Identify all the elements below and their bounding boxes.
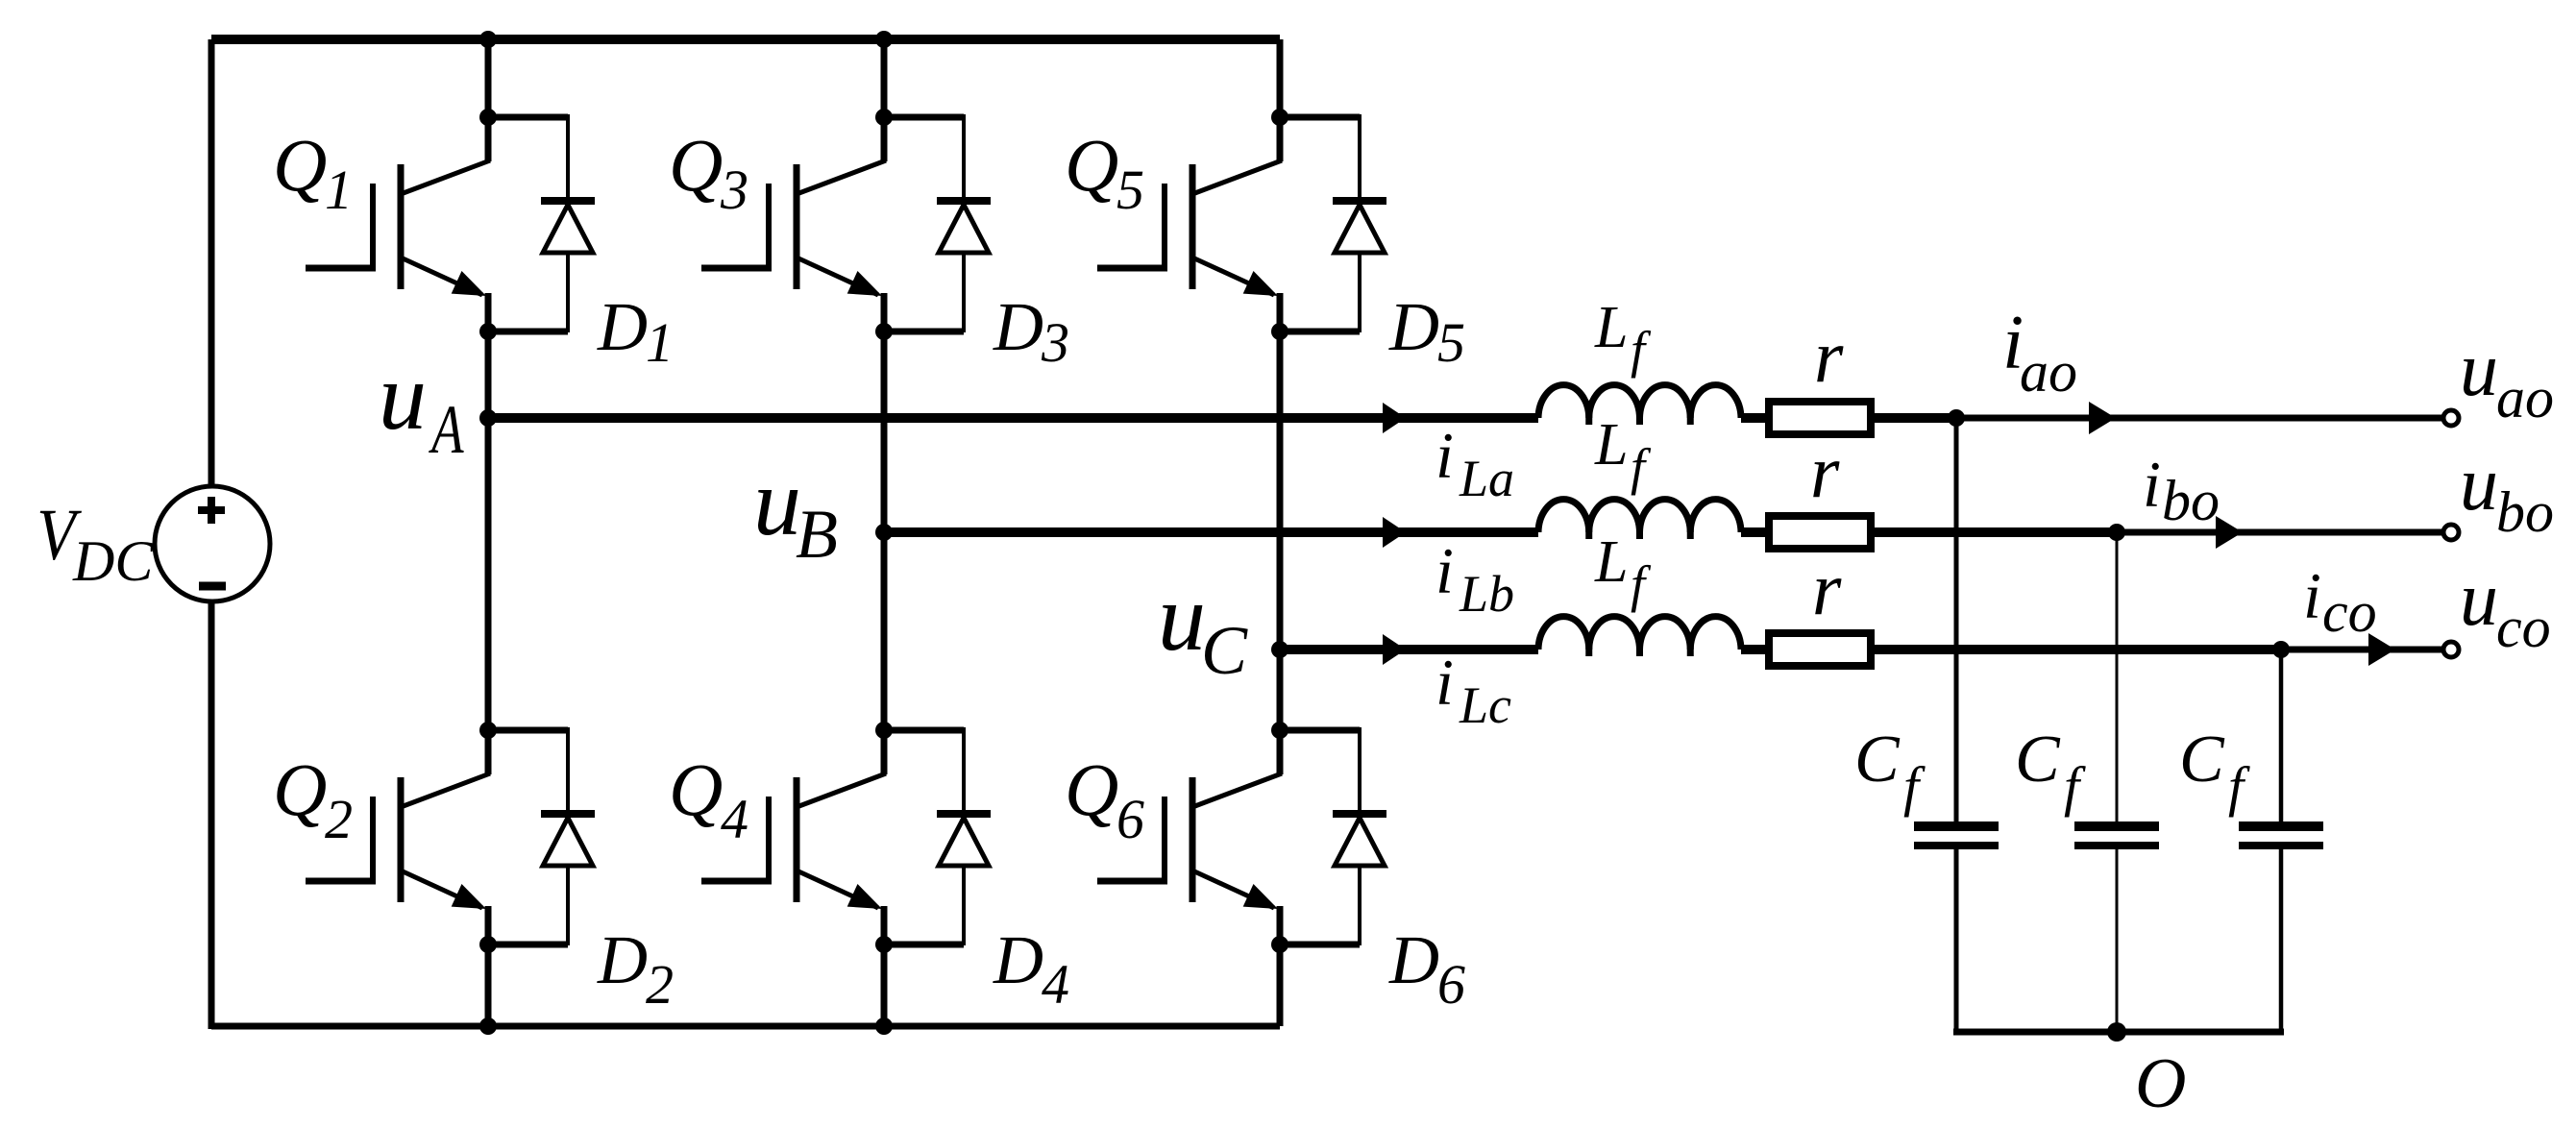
transistor Q2 bbox=[306, 730, 490, 945]
svg-text:D: D bbox=[1388, 921, 1439, 998]
transistor Q4 bbox=[701, 730, 886, 945]
svg-text:i: i bbox=[1435, 646, 1454, 719]
junction top rail leg A bbox=[479, 31, 497, 48]
label D2 bbox=[597, 921, 674, 1016]
arrow i_La bbox=[1383, 403, 1406, 433]
svg-text:u: u bbox=[753, 449, 801, 555]
node emitter Q4 bbox=[875, 936, 893, 953]
svg-text:i: i bbox=[1435, 534, 1454, 607]
wire L_f to r phase B bbox=[1741, 527, 1769, 537]
label D1 bbox=[597, 288, 674, 374]
svg-text:L: L bbox=[1594, 295, 1628, 360]
label u_A bbox=[379, 343, 464, 468]
svg-text:6: 6 bbox=[1116, 788, 1144, 850]
arrow i_Lb bbox=[1383, 517, 1406, 548]
node emitter Q2 bbox=[479, 936, 497, 953]
label D5 bbox=[1388, 288, 1465, 374]
diode D6 bbox=[1280, 727, 1386, 945]
resistor r phase C bbox=[1769, 633, 1871, 666]
wire phase C output bbox=[2281, 647, 2443, 653]
label Q4 bbox=[669, 748, 748, 850]
label Q5 bbox=[1065, 123, 1144, 221]
label Q2 bbox=[273, 748, 353, 850]
svg-text:i: i bbox=[1435, 419, 1454, 492]
svg-text:Q: Q bbox=[1065, 748, 1118, 831]
svg-text:D: D bbox=[1388, 288, 1439, 365]
wire top rail bbox=[211, 35, 1280, 44]
node u_B bbox=[875, 524, 893, 541]
wire L_f to r phase C bbox=[1741, 645, 1769, 654]
node u_A bbox=[479, 409, 497, 427]
label u_bo bbox=[2460, 442, 2554, 544]
svg-text:Q: Q bbox=[669, 748, 723, 831]
junction bottom rail leg B bbox=[875, 1018, 893, 1035]
wire capacitor rail bbox=[1953, 1029, 2284, 1036]
label i_ao bbox=[2002, 301, 2077, 404]
terminal u_co bbox=[2443, 642, 2459, 657]
svg-text:L: L bbox=[1594, 529, 1628, 595]
wire r to junction phase A bbox=[1871, 413, 1956, 423]
node collector Q5 bbox=[1271, 109, 1288, 126]
transistor Q5 bbox=[1097, 117, 1282, 332]
label C_f phase A bbox=[1854, 723, 1926, 818]
capacitor C_f phase C bbox=[2239, 650, 2323, 1032]
svg-text:D: D bbox=[597, 288, 648, 365]
label Q3 bbox=[669, 123, 748, 221]
svg-text:bo: bo bbox=[2496, 480, 2554, 544]
junction phase C capacitor bbox=[2272, 641, 2290, 658]
node emitter Q3 bbox=[875, 323, 893, 340]
svg-text:i: i bbox=[2143, 448, 2161, 521]
arrow i_co bbox=[2368, 633, 2395, 666]
svg-text:D: D bbox=[993, 288, 1043, 365]
label u_B bbox=[753, 449, 838, 573]
label D6 bbox=[1388, 921, 1465, 1016]
wire bottom rail bbox=[211, 1023, 1280, 1030]
diode D1 bbox=[488, 114, 595, 332]
svg-text:1: 1 bbox=[325, 159, 353, 221]
svg-text:Q: Q bbox=[669, 123, 723, 207]
label Q1 bbox=[273, 123, 353, 221]
svg-text:C: C bbox=[1854, 723, 1901, 797]
svg-text:u: u bbox=[1158, 564, 1206, 671]
node collector Q1 bbox=[479, 109, 497, 126]
node collector Q4 bbox=[875, 722, 893, 739]
label L_f phase C bbox=[1594, 529, 1652, 613]
wire leg C lower bbox=[1277, 944, 1284, 1026]
svg-text:r: r bbox=[1814, 314, 1844, 398]
wire leg C upper bbox=[1277, 39, 1284, 117]
wire leg C mid bbox=[1277, 331, 1284, 730]
svg-text:D: D bbox=[993, 921, 1043, 998]
node emitter Q5 bbox=[1271, 323, 1288, 340]
svg-text:D: D bbox=[597, 921, 648, 998]
label D3 bbox=[993, 288, 1069, 374]
label r phase C bbox=[1812, 547, 1842, 630]
svg-text:3: 3 bbox=[720, 159, 748, 221]
wire leg B mid bbox=[881, 331, 888, 730]
svg-text:3: 3 bbox=[1041, 311, 1069, 374]
label i_La bbox=[1435, 419, 1514, 507]
svg-text:r: r bbox=[1812, 547, 1842, 630]
svg-text:4: 4 bbox=[721, 788, 748, 850]
svg-text:1: 1 bbox=[646, 311, 674, 374]
node collector Q3 bbox=[875, 109, 893, 126]
arrow i_Lc bbox=[1383, 634, 1406, 665]
svg-text:Lb: Lb bbox=[1459, 565, 1514, 623]
arrow i_ao bbox=[2089, 402, 2116, 434]
svg-text:u: u bbox=[2460, 328, 2498, 412]
svg-text:O: O bbox=[2135, 1044, 2186, 1123]
label u_ao bbox=[2460, 328, 2554, 429]
svg-text:B: B bbox=[796, 496, 838, 573]
svg-text:r: r bbox=[1810, 429, 1840, 513]
terminal u_bo bbox=[2443, 525, 2459, 540]
capacitor C_f phase B bbox=[2074, 532, 2159, 1032]
arrow i_bo bbox=[2216, 516, 2243, 549]
wire left dc minus bbox=[209, 601, 215, 1029]
svg-text:i: i bbox=[2303, 559, 2321, 632]
label i_bo bbox=[2143, 448, 2220, 532]
svg-text:co: co bbox=[2496, 596, 2551, 659]
capacitor C_f phase A bbox=[1914, 418, 1999, 1032]
wire left dc plus bbox=[209, 39, 215, 486]
wire leg B top bbox=[881, 39, 888, 117]
diode D3 bbox=[884, 114, 991, 332]
svg-text:C: C bbox=[2179, 723, 2225, 797]
svg-text:4: 4 bbox=[1042, 953, 1069, 1016]
resistor r phase A bbox=[1769, 402, 1871, 434]
node emitter Q1 bbox=[479, 323, 497, 340]
label L_f phase A bbox=[1594, 295, 1652, 379]
node collector Q2 bbox=[479, 722, 497, 739]
svg-text:co: co bbox=[2322, 580, 2377, 644]
svg-text:6: 6 bbox=[1437, 953, 1465, 1016]
junction phase A capacitor bbox=[1948, 409, 1965, 427]
svg-text:DC: DC bbox=[72, 529, 154, 593]
label C_f phase C bbox=[2179, 723, 2250, 818]
svg-text:bo: bo bbox=[2162, 469, 2220, 532]
svg-text:2: 2 bbox=[646, 953, 674, 1016]
inductor L_f phase C bbox=[1538, 617, 1741, 656]
label r phase A bbox=[1814, 314, 1844, 398]
label i_Lb bbox=[1435, 534, 1514, 623]
svg-text:5: 5 bbox=[1437, 311, 1465, 374]
label Q6 bbox=[1065, 748, 1144, 850]
node u_C bbox=[1271, 641, 1288, 658]
junction bottom rail leg A bbox=[479, 1018, 497, 1035]
svg-text:Q: Q bbox=[273, 123, 327, 207]
svg-text:Q: Q bbox=[1065, 123, 1118, 207]
svg-text:La: La bbox=[1459, 450, 1514, 507]
DC source V_DC bbox=[155, 486, 270, 601]
wire phase A bbox=[488, 413, 1538, 423]
label u_co bbox=[2460, 557, 2551, 659]
label V_DC bbox=[37, 496, 154, 593]
svg-text:2: 2 bbox=[325, 788, 353, 850]
svg-text:A: A bbox=[429, 391, 465, 468]
transistor Q1 bbox=[306, 117, 490, 332]
label C_f phase B bbox=[2015, 723, 2086, 818]
transistor Q6 bbox=[1097, 730, 1282, 945]
wire L_f to r phase A bbox=[1741, 413, 1769, 423]
svg-text:5: 5 bbox=[1116, 159, 1144, 221]
diode D5 bbox=[1280, 114, 1386, 332]
svg-text:C: C bbox=[2015, 723, 2061, 797]
wire leg A mid bbox=[485, 331, 492, 730]
svg-text:ao: ao bbox=[2020, 340, 2077, 404]
svg-text:C: C bbox=[1201, 612, 1248, 689]
terminal u_ao bbox=[2443, 410, 2459, 426]
resistor r phase B bbox=[1769, 516, 1871, 549]
wire leg B lower bbox=[881, 944, 888, 1026]
junction top rail leg B bbox=[875, 31, 893, 48]
label u_C bbox=[1158, 564, 1248, 689]
wire r to junction phase C bbox=[1871, 645, 2281, 654]
junction phase B capacitor bbox=[2108, 524, 2125, 541]
inductor L_f phase A bbox=[1538, 385, 1741, 425]
wire phase A output bbox=[1956, 415, 2443, 422]
label L_f phase B bbox=[1594, 412, 1652, 496]
transistor Q3 bbox=[701, 117, 886, 332]
svg-text:Q: Q bbox=[273, 748, 327, 831]
svg-text:u: u bbox=[2460, 557, 2498, 642]
wire r to junction phase B bbox=[1871, 527, 2117, 537]
wire phase B bbox=[884, 527, 1538, 537]
svg-text:u: u bbox=[379, 343, 427, 450]
label i_co bbox=[2303, 559, 2377, 644]
node emitter Q6 bbox=[1271, 936, 1288, 953]
svg-text:u: u bbox=[2460, 442, 2498, 527]
inductor L_f phase B bbox=[1538, 500, 1741, 539]
label r phase B bbox=[1810, 429, 1840, 513]
node O bbox=[2107, 1022, 2126, 1042]
label D4 bbox=[993, 921, 1069, 1016]
node collector Q6 bbox=[1271, 722, 1288, 739]
diode D2 bbox=[488, 727, 595, 945]
wire phase C bbox=[1280, 645, 1538, 654]
label O bbox=[2135, 1044, 2186, 1123]
svg-text:ao: ao bbox=[2496, 366, 2554, 429]
label i_Lc bbox=[1435, 646, 1511, 734]
wire phase B output bbox=[2117, 529, 2443, 536]
diode D4 bbox=[884, 727, 991, 945]
wire leg A top bbox=[485, 39, 492, 117]
wire leg A lower bbox=[485, 944, 492, 1026]
svg-text:Lc: Lc bbox=[1459, 676, 1511, 734]
svg-text:L: L bbox=[1594, 412, 1628, 478]
